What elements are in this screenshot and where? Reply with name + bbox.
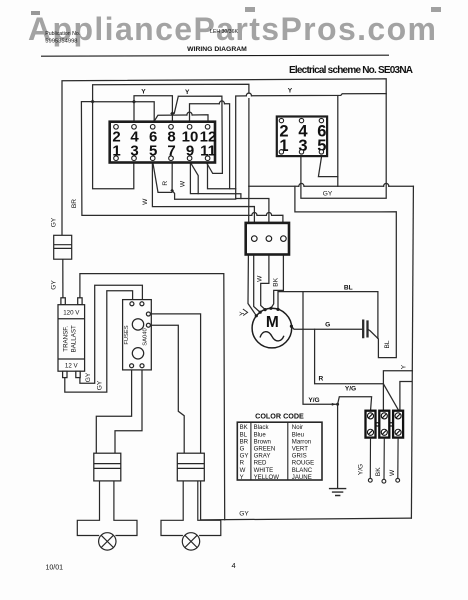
svg-text:GY: GY xyxy=(239,510,249,517)
junction J3 xyxy=(170,111,174,115)
lamp L2 stem and housing xyxy=(161,481,221,550)
svg-text:Y: Y xyxy=(401,364,408,369)
wire Y: y84 rail from junction to right drop xyxy=(93,84,249,186)
svg-text:GY: GY xyxy=(240,453,249,460)
svg-text:Electrical scheme No. SE03NA: Electrical scheme No. SE03NA xyxy=(289,65,413,76)
svg-text:5995354998: 5995354998 xyxy=(45,38,77,44)
svg-text:TRANSF.: TRANSF. xyxy=(63,326,70,352)
svg-text:BL: BL xyxy=(384,340,391,348)
wire Y: terminal 10 riser and rail xyxy=(190,104,230,189)
wire: right strip riser to loop xyxy=(400,382,412,410)
lamp connector X2 xyxy=(177,453,204,481)
wire W2: terminal 9 rail joins pin2 feed xyxy=(198,194,241,199)
svg-text:GY: GY xyxy=(85,372,92,382)
svg-text:BK: BK xyxy=(272,277,279,286)
wire BL: chain from line A to capacitor xyxy=(295,186,396,357)
svg-text:SA040: SA040 xyxy=(143,328,149,345)
wire Y: third rail segment to right border with branch xyxy=(236,94,387,199)
wire GY: right side long drop to bottom loop xyxy=(411,186,413,518)
wire Y: terminal 4 riser and rail to terminal 8 xyxy=(134,96,172,122)
junction YG ground node xyxy=(336,403,339,406)
svg-text:12 V: 12 V xyxy=(65,363,79,370)
connector U1 terminal circles xyxy=(114,125,210,161)
svg-text:Black: Black xyxy=(254,424,270,431)
svg-text:Brown: Brown xyxy=(254,438,271,445)
wire W: terminal 5 diagonal branch xyxy=(153,164,172,193)
hop on t6-t12 rail over t10 riser xyxy=(187,112,192,115)
wire GY main: top border, right drop to connector2 pin3 feed xyxy=(62,79,386,236)
wire YG: left drop from BL rail to ground junction xyxy=(303,292,338,405)
svg-text:Marron: Marron xyxy=(292,438,311,445)
wire W2: terminal 9 drops xyxy=(190,163,198,194)
title underline xyxy=(41,55,389,56)
wire labels xyxy=(51,88,408,518)
wire Y: diagonal into right strip xyxy=(384,384,399,409)
wire YG: riser to block left strip xyxy=(338,397,372,410)
filter capacitor box xyxy=(54,235,72,259)
connector U3 3-pin xyxy=(246,223,289,255)
wire Y: branch down right of connector2 xyxy=(337,96,339,187)
hop on t10 rail over t11 drop xyxy=(219,101,224,104)
svg-text:Y: Y xyxy=(141,89,146,96)
wire R: from terminal 7 with jog xyxy=(172,163,236,200)
hop on line A over pin3 drop xyxy=(299,183,304,186)
svg-text:G: G xyxy=(240,446,245,453)
terminal block lead wires xyxy=(368,438,399,484)
transformer T1 ballast xyxy=(58,298,85,378)
svg-text:Y/G: Y/G xyxy=(358,464,365,475)
motor M1 xyxy=(252,308,292,348)
svg-text:BK: BK xyxy=(240,424,248,431)
svg-text:RED: RED xyxy=(254,460,267,467)
wire R: pin2 feed rail xyxy=(236,199,269,223)
junction J2 xyxy=(132,100,136,104)
hop on BR wire at pin2 drop xyxy=(266,212,271,215)
wire GY bottom loop xyxy=(201,518,412,520)
wire GY: 12V right arc to fuse top right xyxy=(80,285,142,383)
wire Y: y102 rail from junction to terminal 6 xyxy=(93,102,155,122)
svg-text:Y: Y xyxy=(185,89,190,96)
svg-text:W: W xyxy=(142,198,149,205)
svg-text:GY: GY xyxy=(51,280,58,290)
svg-text:Y/G: Y/G xyxy=(345,386,356,393)
svg-text:W: W xyxy=(257,275,264,282)
svg-text:Publication No.: Publication No. xyxy=(45,31,80,37)
svg-text:GY: GY xyxy=(51,217,58,227)
wire: connector2 pin5 diagonal xyxy=(318,156,337,176)
svg-text:ROUGE: ROUGE xyxy=(292,460,314,467)
svg-text:Y: Y xyxy=(288,88,293,95)
lamp connector X1 xyxy=(94,453,121,481)
wire: 3pin pin2 to motor xyxy=(261,255,269,310)
color code table rows xyxy=(240,424,315,481)
svg-text:BALLAST: BALLAST xyxy=(71,325,78,352)
svg-text:Y: Y xyxy=(240,474,244,481)
hop on line A over border vertical xyxy=(384,183,389,186)
junction terminal7 wire xyxy=(170,189,174,193)
connector U2 pin numbers xyxy=(279,123,326,155)
svg-text:GY: GY xyxy=(96,380,103,390)
svg-text:COLOR CODE: COLOR CODE xyxy=(255,411,304,420)
fuse box labels xyxy=(124,325,149,345)
wire BK: 3pin pin3 to motor xyxy=(271,255,284,309)
lamp L1 stem and housing xyxy=(77,481,137,550)
wire R: drop from G wire to terminal block middle strip xyxy=(315,329,384,384)
arrow mark on Y motor wire xyxy=(243,309,247,315)
svg-text:YELLOW: YELLOW xyxy=(254,474,280,481)
wire W: terminal 5 to 3pin pin1 xyxy=(152,163,254,223)
svg-text:Blue: Blue xyxy=(254,431,267,438)
wire Y: terminal 11 second drop to junction rail xyxy=(208,163,236,189)
terminal block TB1 strips xyxy=(366,411,404,438)
svg-text:Y/G: Y/G xyxy=(308,397,319,404)
svg-text:R: R xyxy=(319,375,324,382)
connector U1 12-terminal block xyxy=(110,122,215,163)
scan artifact marks xyxy=(31,7,441,15)
wire Y: terminal 6 diagonal rail to terminal 12 xyxy=(154,115,208,122)
svg-text:GREEN: GREEN xyxy=(254,446,276,453)
svg-text:WHITE: WHITE xyxy=(254,467,274,474)
wire to ground xyxy=(337,404,339,488)
arrow on YG wire xyxy=(332,403,336,406)
motor terminal dots xyxy=(255,307,293,328)
capacitor C1 plates xyxy=(363,321,367,337)
svg-text:W: W xyxy=(389,469,396,476)
wire Y: second rail segment with terminal 8 diagonal xyxy=(174,96,222,173)
wire W: 3pin pin1 to motor xyxy=(254,255,260,313)
wire Y: drop continues to motor xyxy=(248,186,256,315)
color code table xyxy=(237,422,322,480)
svg-text:WIRING DIAGRAM: WIRING DIAGRAM xyxy=(187,46,247,53)
wire GY: 12V left arc to fuse top left xyxy=(65,291,133,392)
hop on BR wire at pin1 drop xyxy=(252,212,257,215)
svg-text:BLANC: BLANC xyxy=(292,467,313,474)
wire GY: 120V right riser and long rail to loop xyxy=(80,274,225,520)
svg-text:R: R xyxy=(240,460,245,467)
svg-text:GRIS: GRIS xyxy=(292,453,307,460)
svg-text:GRAY: GRAY xyxy=(254,453,271,460)
transformer labels xyxy=(63,310,81,370)
wire GY: filter cap to transformer 120V left terminal xyxy=(62,259,64,298)
svg-text:Y: Y xyxy=(239,311,246,316)
svg-text:Bleu: Bleu xyxy=(292,431,304,438)
svg-text:10/01: 10/01 xyxy=(46,565,64,572)
hop on third rail over Y motor drop xyxy=(246,93,251,96)
connector U2 terminal circles xyxy=(279,118,323,154)
svg-text:W: W xyxy=(240,467,246,474)
svg-text:JAUNE: JAUNE xyxy=(292,474,312,481)
wire: fuse right circle2 to lamp2 xyxy=(150,325,184,453)
svg-text:BL: BL xyxy=(344,285,353,292)
svg-text:BR: BR xyxy=(240,438,249,445)
svg-text:BR: BR xyxy=(71,199,78,208)
svg-text:BL: BL xyxy=(240,431,248,438)
wire G: motor to capacitor xyxy=(292,326,364,329)
svg-text:GY: GY xyxy=(323,191,333,198)
wire BL: motor riser and rail xyxy=(278,292,378,339)
ground symbol xyxy=(330,489,346,496)
wire: connector1 t3 drop wires to lamp1 xyxy=(96,370,142,453)
junction J1 xyxy=(90,99,94,103)
svg-text:Noir: Noir xyxy=(292,424,303,431)
svg-text:W: W xyxy=(179,180,186,187)
wire BR: junction left arm, down left side, right to 3pin pin3 xyxy=(81,102,283,223)
svg-text:FUSES: FUSES xyxy=(124,325,130,344)
svg-text:BK: BK xyxy=(375,467,382,476)
wire GY line A horizontal xyxy=(249,185,414,187)
connector U2 6-terminal block xyxy=(277,117,327,157)
wire Y: branch to middle strip of terminal block xyxy=(383,371,412,410)
wire: fuse right circle1 to lamp2 return loop xyxy=(150,314,200,520)
svg-text:VERT: VERT xyxy=(292,446,308,453)
svg-text:4: 4 xyxy=(232,561,236,570)
fuse box F1 xyxy=(123,300,152,370)
wire Y: loop from junction down to terminal 3 xyxy=(93,102,134,189)
svg-text:G: G xyxy=(325,322,330,329)
svg-text:R: R xyxy=(162,181,169,186)
svg-text:LEH 30/36K: LEH 30/36K xyxy=(210,29,239,35)
svg-text:M: M xyxy=(266,314,279,331)
terminal block screws xyxy=(367,413,401,436)
svg-text:120 V: 120 V xyxy=(63,310,80,317)
connector U1 pin numbers row 1 xyxy=(112,129,216,160)
